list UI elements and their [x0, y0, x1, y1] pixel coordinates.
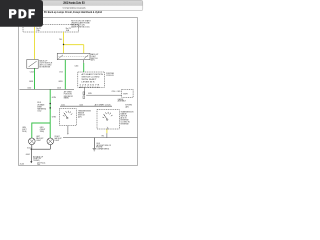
svg-text:C725: C725 [59, 71, 63, 73]
svg-text:SHIFT: SHIFT [123, 93, 128, 95]
svg-text:(RIGHT: (RIGHT [40, 129, 46, 131]
svg-text:CONTROL MOD: CONTROL MOD [106, 75, 114, 77]
svg-text:(A/T): (A/T) [78, 116, 82, 119]
svg-text:1 2 3 4 5 6 7 8: 1 2 3 4 5 6 7 8 [79, 84, 99, 86]
svg-text:C416: C416 [75, 66, 79, 68]
svg-text:C404: C404 [30, 71, 34, 73]
svg-text:25-66: 25-66 [20, 164, 24, 166]
svg-text:G101: G101 [96, 143, 100, 145]
svg-text:LIGHT: LIGHT [36, 140, 41, 142]
svg-text:C405: C405 [117, 91, 121, 93]
svg-text:A/T SHIFT LOCK: A/T SHIFT LOCK [95, 104, 112, 107]
svg-text:PANEL: PANEL [64, 97, 69, 100]
svg-text:SYSTEM: SYSTEM [125, 105, 132, 107]
svg-text:66: Back-up Lamps Circuit, Exc: 66: Back-up Lamps Circuit, Except Hatchb… [44, 10, 102, 14]
svg-text:LEFT: LEFT [36, 136, 40, 138]
svg-text:SIDE): SIDE) [22, 131, 27, 133]
svg-text:SIDE): SIDE) [40, 131, 45, 133]
svg-text:YEL: YEL [101, 135, 104, 137]
svg-text:TRUNK): TRUNK) [33, 160, 40, 162]
svg-text:YEL: YEL [59, 39, 62, 41]
svg-text:C950: C950 [112, 91, 116, 93]
svg-text:SYSTEM WIRING DIAGRAMS: SYSTEM WIRING DIAGRAMS [63, 7, 86, 10]
svg-text:(A/T): (A/T) [91, 59, 95, 62]
svg-text:C562: C562 [27, 87, 31, 89]
svg-text:C416: C416 [79, 105, 83, 107]
svg-text:2002 Honda: 2002 Honda [37, 162, 45, 164]
svg-text:RIGHT: RIGHT [55, 136, 60, 138]
svg-text:REVERSE: REVERSE [121, 123, 130, 125]
svg-text:GRN: GRN [29, 81, 34, 83]
svg-text:GRN: GRN [52, 97, 57, 99]
svg-text:LIGHT: LIGHT [55, 140, 60, 142]
svg-text:GRN: GRN [58, 81, 63, 83]
svg-text:GRN: GRN [52, 117, 57, 119]
svg-text:C416: C416 [57, 87, 61, 89]
svg-text:C552: C552 [37, 111, 41, 113]
svg-text:S101: S101 [27, 148, 31, 150]
svg-text:ENGINE: ENGINE [96, 147, 102, 149]
svg-text:(LEFT: (LEFT [22, 129, 26, 131]
svg-text:Civic: Civic [37, 164, 40, 166]
svg-text:IN REVERSE: IN REVERSE [39, 67, 51, 69]
svg-text:2002 Honda Civic EX: 2002 Honda Civic EX [63, 1, 85, 5]
svg-text:G401: G401 [26, 154, 30, 156]
svg-text:LEVER IN R: LEVER IN R [82, 82, 96, 84]
svg-text:DASH FUSE BLOCK): DASH FUSE BLOCK) [71, 26, 90, 29]
svg-text:C101: C101 [61, 105, 65, 107]
